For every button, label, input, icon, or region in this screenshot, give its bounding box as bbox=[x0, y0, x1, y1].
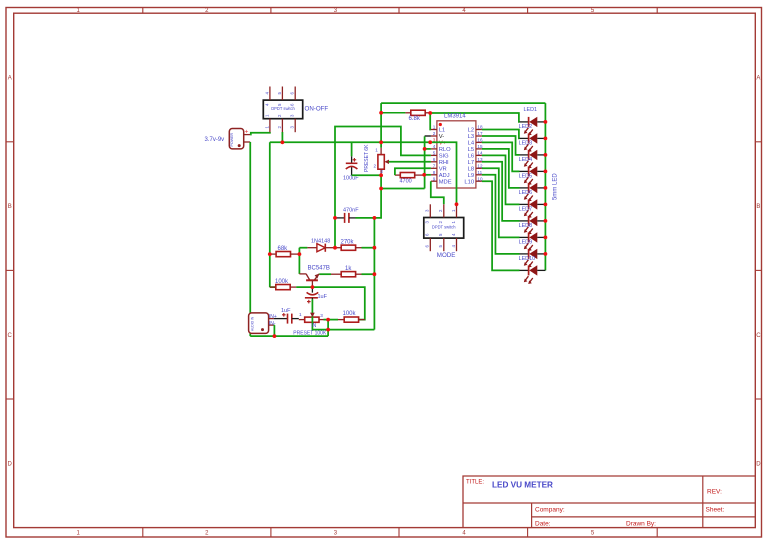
junction base / 100k / 1uF bbox=[311, 285, 315, 289]
wire V+ left drop to 68k and 100k bbox=[270, 142, 276, 287]
svg-text:8: 8 bbox=[433, 170, 436, 175]
svg-text:D: D bbox=[756, 461, 761, 467]
junction LED3 anode on rail bbox=[544, 153, 548, 157]
svg-text:IN: IN bbox=[311, 323, 316, 329]
resistor R5 270k bbox=[335, 247, 341, 249]
wire battery plus to switch pin1 bbox=[250, 132, 270, 135]
svg-text:1: 1 bbox=[299, 312, 302, 317]
resistor R9 100k lower bbox=[328, 319, 338, 321]
LED LED2 5mm bbox=[520, 133, 546, 152]
svg-text:Date:: Date: bbox=[535, 521, 551, 528]
svg-text:IN+: IN+ bbox=[269, 314, 277, 320]
capacitor C4 1uF bbox=[274, 313, 299, 324]
junction V- net at RLO row bbox=[423, 147, 427, 151]
LM3914 right pins 18-10 bbox=[464, 125, 483, 186]
junction LED2 anode on rail bbox=[544, 137, 548, 141]
svg-text:MDE: MDE bbox=[439, 179, 452, 185]
svg-text:MODE: MODE bbox=[437, 252, 456, 259]
ON-OFF switch body and pins bbox=[263, 87, 302, 133]
svg-text:L9: L9 bbox=[468, 173, 474, 179]
svg-text:LED4: LED4 bbox=[519, 157, 533, 163]
svg-text:LM3914: LM3914 bbox=[444, 114, 466, 120]
wire 470R left up to VR pin7 bbox=[395, 168, 431, 175]
frame row letters A-D left and right bbox=[8, 76, 762, 468]
wire MDE pin9 to MODE switch pin2 bbox=[431, 181, 444, 204]
svg-text:6.8k: 6.8k bbox=[409, 116, 421, 122]
junction LED4 anode on rail bbox=[544, 170, 548, 174]
svg-text:Company:: Company: bbox=[535, 507, 565, 514]
svg-text:LED8: LED8 bbox=[519, 223, 533, 229]
svg-text:7: 7 bbox=[433, 164, 436, 169]
svg-text:L3: L3 bbox=[468, 134, 474, 140]
PRESET 100K body and pins bbox=[299, 312, 328, 322]
junction MODE pin1 wire end bbox=[455, 202, 459, 206]
svg-text:100k: 100k bbox=[343, 311, 357, 317]
svg-text:Drawn By:: Drawn By: bbox=[626, 521, 656, 528]
svg-text:ADJ: ADJ bbox=[439, 173, 450, 179]
IN connector body bbox=[249, 313, 274, 334]
wire V- pin2 black then down to RLO/ADJ net bbox=[425, 136, 431, 189]
svg-text:2: 2 bbox=[373, 163, 376, 168]
svg-text:BC547B: BC547B bbox=[308, 266, 330, 272]
wire top V+ rail to LED anode rail bbox=[381, 103, 545, 148]
junction diode cathode / 270k / signal wire bbox=[333, 246, 337, 250]
LED LED8 5mm bbox=[520, 232, 546, 251]
wire 100uF bottom rail to pot bottom bbox=[352, 174, 382, 176]
svg-text:1: 1 bbox=[433, 125, 436, 130]
svg-text:1k: 1k bbox=[345, 266, 352, 272]
MODE switch body and pins bbox=[424, 204, 464, 251]
wire IN- down to ground rail bbox=[273, 325, 276, 336]
junction LED6 anode on rail bbox=[544, 203, 548, 207]
svg-text:1N4148: 1N4148 bbox=[311, 239, 330, 245]
svg-text:L8: L8 bbox=[468, 167, 474, 173]
LED LED9 5mm bbox=[520, 249, 546, 268]
svg-text:4: 4 bbox=[433, 144, 436, 149]
resistor R4 68k bbox=[270, 253, 276, 255]
svg-text:A: A bbox=[8, 76, 12, 82]
wire L3 pin17 to LED3 bbox=[482, 136, 520, 155]
svg-text:C: C bbox=[8, 333, 13, 339]
junction V- net at ADJ row bbox=[422, 173, 426, 177]
svg-text:LED5: LED5 bbox=[519, 174, 533, 180]
junction 470nF left on signal wire bbox=[333, 216, 337, 220]
wire pot 6K wiper to IC pin6 RHI bbox=[389, 161, 431, 163]
wire 1uF bottom through preset to wiper net bbox=[310, 303, 328, 330]
svg-text:100k: 100k bbox=[275, 279, 289, 285]
PRESET 6K body and pins bbox=[373, 147, 389, 175]
svg-text:D: D bbox=[8, 461, 13, 467]
wire right ground net vertical bbox=[373, 218, 375, 330]
junction LED5 anode on rail bbox=[544, 186, 548, 190]
frame column numbers 1-5 top and bottom bbox=[77, 8, 595, 536]
wire 6.8k junction to LED1 bbox=[430, 113, 519, 122]
resistor R1 6.8k bbox=[381, 112, 405, 114]
junction IN- on ground rail bbox=[273, 334, 277, 338]
svg-text:L7: L7 bbox=[468, 160, 474, 166]
svg-text:LED3: LED3 bbox=[519, 141, 533, 147]
junction LED9 anode on rail bbox=[544, 252, 548, 256]
wire V+ pin3 over IC down to MODE switch pin1 bbox=[430, 142, 456, 204]
junction 6.8k right / L1 wire bbox=[428, 111, 432, 115]
wire collector signal to SIG pin5 bbox=[335, 127, 431, 248]
svg-text:LED9: LED9 bbox=[519, 240, 533, 246]
resistor R7 100k base bias bbox=[270, 286, 276, 288]
svg-text:11: 11 bbox=[477, 170, 482, 175]
svg-text:L1: L1 bbox=[439, 128, 445, 134]
capacitor C1 100uF bbox=[346, 142, 358, 175]
svg-text:C: C bbox=[756, 333, 761, 339]
svg-text:68k: 68k bbox=[278, 246, 289, 252]
svg-text:L4: L4 bbox=[468, 141, 475, 147]
wire battery minus down to ground rail bbox=[249, 142, 251, 336]
wire 68k junction vertical diode anode to collector bbox=[299, 248, 307, 274]
wire wiper net right to ground vertical bbox=[328, 329, 374, 331]
svg-text:1: 1 bbox=[375, 147, 378, 152]
junction pot 6K bottom / 100uF rail bbox=[379, 173, 383, 177]
wire L4 pin16 to LED4 bbox=[482, 142, 520, 171]
svg-text:LED2: LED2 bbox=[519, 124, 533, 130]
capacitor C3 1uF bbox=[305, 287, 318, 303]
wire LED anode supply rail bbox=[544, 103, 546, 270]
svg-text:5mm LED: 5mm LED bbox=[553, 173, 559, 200]
wire RLO pin4 to net bbox=[425, 148, 431, 150]
svg-text:3.7v-9v: 3.7v-9v bbox=[205, 137, 225, 143]
svg-text:LED VU METER: LED VU METER bbox=[492, 481, 553, 490]
junction 6.8k left / top rail drop bbox=[379, 111, 383, 115]
junction switch pin2 / V+ rail bbox=[281, 140, 285, 144]
svg-text:6: 6 bbox=[433, 157, 436, 162]
svg-text:B: B bbox=[8, 204, 12, 210]
LED LED3 5mm bbox=[520, 150, 546, 169]
wire L10 pin10 to LED10 bbox=[482, 181, 520, 270]
svg-text:100uF: 100uF bbox=[343, 176, 359, 182]
junction pot bottom net bbox=[379, 187, 383, 191]
LED LED7 5mm bbox=[520, 216, 546, 235]
wire L2 pin18 to LED2 bbox=[482, 130, 520, 139]
wire L7 pin13 to LED7 bbox=[482, 162, 520, 221]
junction pot3 / 100k left bbox=[326, 318, 330, 322]
LED LED10 5mm bbox=[520, 265, 546, 284]
BC547B symbol bbox=[299, 274, 319, 288]
LM3914 body bbox=[437, 121, 476, 188]
svg-text:470nF: 470nF bbox=[343, 207, 359, 213]
junction top rail drop / V+ rail bbox=[379, 140, 383, 144]
svg-text:5: 5 bbox=[433, 151, 436, 156]
wire L6 pin14 to LED6 bbox=[482, 155, 520, 204]
wire ground bottom rail bbox=[250, 335, 328, 337]
wire L9 pin11 to LED9 bbox=[482, 175, 520, 254]
svg-text:VR: VR bbox=[439, 167, 447, 173]
svg-text:270k: 270k bbox=[341, 240, 355, 246]
wire base junction right to lower 100k bbox=[312, 287, 364, 320]
junction 470nF right / ground net bbox=[373, 216, 377, 220]
svg-text:REV:: REV: bbox=[707, 489, 722, 496]
svg-text:L5: L5 bbox=[468, 147, 474, 153]
svg-text:TITLE:: TITLE: bbox=[466, 480, 484, 486]
svg-text:LED6: LED6 bbox=[519, 190, 533, 196]
junction 1k right / ground net bbox=[373, 272, 377, 276]
resistor R6 1k bbox=[319, 273, 331, 275]
wire pot3 down to wiper net and ground rail bbox=[327, 320, 329, 337]
wire switch pin2 down to V+ rail bbox=[281, 132, 283, 142]
wire L5 pin15 to LED5 bbox=[482, 149, 520, 188]
junction LED8 anode on rail bbox=[544, 236, 548, 240]
LM3914 left pins 1-9 bbox=[431, 125, 452, 186]
title block bbox=[463, 476, 755, 528]
svg-text:PRESET 6K: PRESET 6K bbox=[364, 144, 370, 172]
junction LED1 anode on rail bbox=[544, 120, 548, 124]
svg-text:DPDT switch: DPDT switch bbox=[432, 225, 456, 230]
wire pot bottom net down to 470nF junction bbox=[374, 189, 381, 218]
wire 6.8k junction down to IC pin1 L1 bbox=[429, 113, 432, 130]
svg-text:1uF: 1uF bbox=[318, 294, 328, 300]
svg-text:4700: 4700 bbox=[400, 179, 412, 185]
svg-text:LED10: LED10 bbox=[519, 256, 535, 262]
capacitor C2 470nF bbox=[335, 213, 374, 223]
svg-text:A: A bbox=[756, 76, 760, 82]
junction wiper net bbox=[326, 328, 330, 332]
junction 270k right / ground net bbox=[373, 246, 377, 250]
svg-text:9: 9 bbox=[433, 176, 436, 181]
LED LED6 5mm bbox=[520, 199, 546, 218]
svg-text:V-: V- bbox=[439, 134, 445, 140]
junction 68k left / V+ drop bbox=[268, 252, 272, 256]
svg-text:L6: L6 bbox=[468, 154, 474, 160]
svg-text:RLO: RLO bbox=[439, 147, 451, 153]
1N4148 symbol bbox=[307, 244, 335, 252]
svg-text:POWER: POWER bbox=[230, 133, 234, 147]
junction V+ rail at pin3 bbox=[428, 140, 432, 144]
wire V+ rail bbox=[270, 141, 430, 143]
svg-text:RHI: RHI bbox=[439, 160, 449, 166]
svg-text:L2: L2 bbox=[468, 128, 474, 134]
svg-text:L10: L10 bbox=[464, 179, 474, 185]
junction 68k right / diode-collector net bbox=[298, 252, 302, 256]
LED LED5 5mm bbox=[520, 183, 546, 202]
wire ADJ pin8 to net bbox=[424, 174, 431, 176]
svg-text:B: B bbox=[756, 204, 760, 210]
svg-text:LED7: LED7 bbox=[519, 207, 533, 213]
svg-text:SIG: SIG bbox=[439, 154, 449, 160]
svg-text:Sheet:: Sheet: bbox=[706, 507, 725, 514]
pin1 marker dot bbox=[439, 123, 442, 126]
battery connector POWER 3.7v-9v bbox=[229, 129, 243, 149]
svg-text:1uF: 1uF bbox=[281, 308, 291, 314]
LED LED4 5mm bbox=[520, 166, 546, 185]
svg-text:3: 3 bbox=[320, 313, 323, 318]
resistor R3 470R bbox=[395, 174, 401, 176]
wire pot bottom down and right to ADJ net bbox=[381, 175, 425, 188]
svg-text:ON-OFF: ON-OFF bbox=[305, 105, 329, 112]
junction LED7 anode on rail bbox=[544, 219, 548, 223]
wire L8 pin12 to LED8 bbox=[482, 168, 520, 237]
LED LED1 5mm bbox=[520, 117, 546, 136]
svg-text:AUDIO IN: AUDIO IN bbox=[251, 316, 255, 331]
svg-text:2: 2 bbox=[433, 131, 436, 136]
wire 1uF bottom stub bbox=[311, 299, 313, 303]
svg-text:LED1: LED1 bbox=[524, 107, 538, 113]
